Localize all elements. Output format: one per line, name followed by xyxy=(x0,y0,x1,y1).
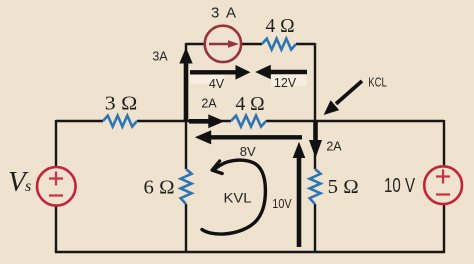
svg-text:10V: 10V xyxy=(272,197,292,211)
svg-text:4V: 4V xyxy=(209,77,225,91)
label "2A" (right branch) xyxy=(326,139,342,153)
label Vs xyxy=(8,166,31,198)
svg-text:2A: 2A xyxy=(201,97,217,111)
wire: branch x=315 (top 4-ohm corner down through 5-ohm) xyxy=(314,43,316,252)
voltage source 10V: circle with plus and minus xyxy=(424,166,462,204)
label "3 Ω" xyxy=(105,94,138,115)
label "12V" xyxy=(274,76,297,90)
svg-text:4 Ω: 4 Ω xyxy=(235,94,264,115)
svg-text:4 Ω: 4 Ω xyxy=(265,16,294,37)
voltage arrow 12V (left) xyxy=(255,65,307,80)
label "5 Ω" xyxy=(328,177,359,198)
label "8V" xyxy=(240,144,256,159)
label "4 Ω" (middle) xyxy=(235,94,264,115)
wire: middle rail y=121 from x=56 to x=444 xyxy=(56,120,444,122)
svg-text:8V: 8V xyxy=(240,144,256,159)
resistor 3-ohm zigzag on middle rail xyxy=(103,116,137,127)
label "4V" xyxy=(209,77,225,91)
label "6 Ω" xyxy=(144,178,175,199)
svg-text:2A: 2A xyxy=(326,139,342,153)
label "KCL" xyxy=(368,76,387,90)
label "3A" xyxy=(152,50,168,64)
wire: left branch through Vs x=56 xyxy=(55,120,57,253)
svg-text:KVL: KVL xyxy=(224,191,253,206)
svg-text:3 Ω: 3 Ω xyxy=(105,94,138,115)
svg-text:10 V: 10 V xyxy=(384,175,415,197)
wire: branch x=186 (top rail corner to bottom rail, 6-ohm in middle) xyxy=(185,43,187,252)
wire: right branch through 10V source x=444 xyxy=(443,120,445,253)
KCL pointer arrow (diagonal toward node) xyxy=(324,81,362,115)
voltage source Vs: circle with plus and minus xyxy=(37,167,76,206)
voltage arrow 8V (left, below middle rail) xyxy=(195,130,302,144)
svg-text:6 Ω: 6 Ω xyxy=(144,178,175,199)
svg-text:s: s xyxy=(25,178,31,195)
resistor 4-ohm (middle) zigzag on middle rail xyxy=(231,116,266,127)
resistor 5-ohm vertical zigzag on x=315 branch xyxy=(310,169,321,204)
svg-text:12V: 12V xyxy=(274,76,297,90)
wire: top rail y=44 from x=186 to x=315 xyxy=(186,43,315,45)
label background box (4V) xyxy=(190,74,225,84)
wire: bottom rail y=252 from x=56 to x=444 xyxy=(55,251,445,253)
resistor 6-ohm vertical zigzag on x=186 branch xyxy=(181,169,192,204)
label background box (12V) xyxy=(271,74,307,86)
label "4 Ω" (top) xyxy=(265,16,294,37)
current arrow 2A (down, on x=315 branch) xyxy=(309,122,322,158)
label "10 V" xyxy=(384,175,415,197)
current arrow 3A (up, on x=186 branch) xyxy=(179,48,192,122)
label "2A" (middle rail) xyxy=(201,97,217,111)
label "KVL" xyxy=(224,191,253,206)
resistor 4-ohm (top) zigzag on top rail xyxy=(262,39,296,50)
svg-text:3A: 3A xyxy=(152,50,168,64)
label "10V" xyxy=(272,197,292,211)
current arrow 2A (right, on middle rail) xyxy=(189,114,225,128)
voltage arrow 10V (up, left of 5-ohm) xyxy=(293,142,306,247)
label "3 A" xyxy=(211,5,236,22)
current source 3A: circle with right arrow xyxy=(205,26,241,62)
svg-text:5 Ω: 5 Ω xyxy=(328,177,359,198)
svg-text:3 A: 3 A xyxy=(211,5,236,22)
svg-text:KCL: KCL xyxy=(368,76,387,90)
voltage arrow 4V (right) xyxy=(190,65,251,80)
KVL loop arrow (freehand counterclockwise loop) xyxy=(202,160,265,234)
